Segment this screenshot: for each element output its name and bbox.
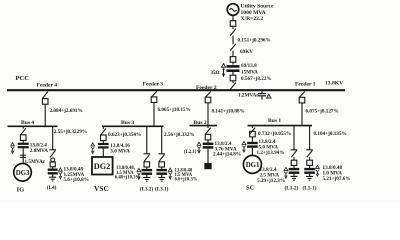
load L2.1 branch: switch blade — [205, 128, 210, 135]
load L4 branch wire — [52, 126, 54, 149]
svg-text:1.2+j13.94%: 1.2+j13.94% — [257, 150, 285, 156]
grounded wye symbol T-DG3 — [11, 147, 14, 154]
wire — [52, 156, 54, 159]
svg-text:2.55+j0.3229%: 2.55+j0.3229% — [54, 129, 87, 135]
grounded wye symbol T-L2.1 — [197, 146, 200, 153]
breaker L1.2 — [291, 160, 297, 165]
DG1 breaker — [250, 131, 256, 137]
switch blade L3.1 — [159, 154, 164, 161]
svg-text:6.075+j8.127%: 6.075+j8.127% — [306, 109, 339, 115]
svg-text:6.6+j10.3%: 6.6+j10.3% — [175, 178, 198, 183]
load L3.2 branch wire — [146, 126, 148, 153]
feeder 1 breaker — [299, 97, 305, 103]
ground L4 — [49, 177, 56, 181]
svg-text:VSC: VSC — [94, 184, 109, 193]
load L1.1 branch wire — [309, 126, 311, 150]
svg-text:Bus 2: Bus 2 — [194, 120, 207, 126]
main bus PCC 13.8kV — [7, 89, 345, 91]
wire — [309, 157, 311, 160]
switch blade (slash) — [230, 29, 236, 36]
wire — [232, 26, 234, 29]
DG1 branch wire — [251, 126, 253, 128]
load L3.1 branch wire — [161, 126, 163, 153]
svg-text:5.29+j12.3%: 5.29+j12.3% — [257, 178, 285, 184]
label 69/13.8 15MVA 0.567+j8.22% — [241, 63, 272, 82]
delta winding symbol T-DG3 — [11, 143, 15, 146]
wire — [102, 149, 104, 157]
grounded wye symbol T-L1.2 — [284, 172, 287, 179]
fuse L4 — [50, 158, 55, 167]
disconnect tick L1.2 — [291, 149, 298, 151]
svg-text:Feeder 1: Feeder 1 — [295, 81, 316, 87]
disconnect tick L3.2 — [144, 153, 151, 155]
wire — [232, 62, 234, 64]
feeder 3 wire to Bus 3 — [153, 103, 155, 127]
svg-text:13.8KV: 13.8KV — [325, 80, 343, 86]
feeder 4 wire to Bus 4 — [44, 104, 46, 126]
wire — [207, 140, 209, 143]
feeder 3: switch blade — [151, 91, 156, 97]
svg-text:8.141+j10.88%: 8.141+j10.88% — [212, 109, 245, 115]
generator DG1 — [243, 155, 261, 173]
svg-text:Bus 1: Bus 1 — [268, 118, 281, 124]
wire — [309, 174, 311, 176]
DG2 breaker — [101, 135, 107, 141]
svg-text:Utility Source: Utility Source — [241, 4, 275, 10]
breaker CB-T1L — [230, 75, 236, 81]
label 13.8/2.4 3.76 MVA 2.44+j14.8% — [213, 141, 241, 157]
wire — [146, 175, 148, 177]
wire — [22, 126, 24, 128]
svg-text:2.44+j14.8%: 2.44+j14.8% — [213, 152, 241, 158]
svg-text:(L1-1): (L1-1) — [303, 184, 317, 191]
switch blade L3.2 — [144, 154, 149, 161]
feeder 1: switch blade — [299, 92, 304, 98]
label 13.8/4.16 3.0 MVA — [110, 143, 130, 155]
svg-text:2.084+j2.691%: 2.084+j2.691% — [50, 108, 83, 114]
svg-text:(L2.1): (L2.1) — [184, 150, 197, 155]
wire: source to breaker — [232, 15, 234, 20]
wire — [207, 126, 209, 128]
breaker L2.1 — [205, 134, 211, 140]
wire — [293, 165, 295, 168]
disconnect tick L3.1 — [158, 153, 165, 155]
feeder 2: switch blade — [205, 92, 210, 98]
grounded wye symbol T-L4 — [59, 172, 62, 179]
transformer T-L3.2 — [142, 170, 153, 174]
label 13.8/0.48 1.25MVA 5.6+j10.8% — [64, 167, 89, 183]
grounded wye symbol T-L3.2 — [137, 173, 140, 180]
switch blade DG2 — [101, 128, 106, 135]
delta winding symbol T1 — [221, 64, 225, 68]
Bus 3 — [102, 125, 164, 127]
delta winding symbol T-L1.1 — [316, 165, 320, 168]
Bus 1 — [248, 125, 313, 127]
wire — [207, 149, 209, 164]
delta winding symbol T-L3.2 — [137, 168, 141, 171]
svg-text:2.0MVA: 2.0MVA — [30, 148, 48, 154]
wire — [251, 148, 253, 156]
feeder 2 wire to Bus 2 — [207, 103, 209, 126]
wire — [232, 72, 234, 75]
wire — [52, 167, 54, 169]
DG3 breaker — [20, 135, 26, 141]
shunt capacitor 1.2MVAr on PCC bus — [258, 90, 266, 99]
svg-text:1.2MVAr: 1.2MVAr — [238, 92, 259, 98]
breaker CB-U — [230, 21, 236, 27]
wire — [309, 165, 311, 168]
switch blade L4 — [50, 150, 55, 157]
svg-text:0.151+j0.296%: 0.151+j0.296% — [238, 37, 271, 43]
svg-text:5.6+j10.8%: 5.6+j10.8% — [64, 177, 89, 183]
transformer T-DG1 13.8/2.4 5.0MVA — [247, 143, 258, 147]
svg-text:15MVA: 15MVA — [241, 69, 258, 75]
DG3 branch: switch blade — [21, 128, 26, 135]
ground L3.2 — [143, 177, 150, 181]
delta symbol of capacitor bank — [267, 94, 271, 98]
svg-text:(L3.1): (L3.1) — [155, 186, 169, 193]
generator DG3 — [14, 164, 32, 182]
label 13.8/0.48, 1.5 MVA 6.48+j10.3% — [115, 166, 141, 180]
label: Utility Source 1000 MVA X/R=22.2 — [241, 4, 275, 22]
breaker L1.1 — [307, 160, 313, 165]
grounded wye symbol T-L3.1 — [169, 172, 172, 179]
feeder 2 breaker — [205, 97, 211, 103]
DG2 branch wire — [102, 126, 104, 129]
label 13.8/0.48 1.0 MVA 5.21+j07.6% — [323, 165, 351, 182]
switch blade (slash) — [230, 44, 236, 51]
switch blade DG1 — [250, 128, 255, 135]
load block L2.1 — [205, 164, 211, 169]
svg-text:69KV: 69KV — [240, 49, 253, 55]
label 13.8/2.4 2.5 MVA 5.29+j12.3% — [257, 167, 285, 184]
svg-text:Feeder 2: Feeder 2 — [196, 85, 217, 91]
label 13.8/0.48 1.5 MVA 6.6+j10.3% — [175, 168, 198, 182]
svg-text:0.104+j0.135%: 0.104+j0.135% — [314, 131, 347, 137]
ground L3.1 — [158, 177, 165, 181]
shunt capacitor 1.5MVAr at DG3 — [20, 155, 26, 157]
Bus 4 — [8, 125, 58, 127]
transformer T-DG2 13.8/4.16 3.0MVA — [98, 144, 109, 147]
svg-text:Bus 4: Bus 4 — [21, 120, 34, 126]
wire — [293, 157, 295, 160]
disconnect tick L4 — [49, 149, 56, 151]
svg-text:DG2: DG2 — [94, 162, 110, 171]
svg-text:2.56+j0.332%: 2.56+j0.332% — [164, 132, 195, 138]
wire — [22, 148, 24, 163]
svg-text:1.5MVAr: 1.5MVAr — [25, 159, 46, 165]
svg-text:35Ω: 35Ω — [211, 71, 220, 76]
svg-text:(L3.2): (L3.2) — [140, 186, 154, 193]
switch blade L1.1 — [307, 150, 312, 157]
svg-text:(L1-2): (L1-2) — [285, 184, 299, 191]
transformer T-L1.2 — [289, 169, 300, 173]
grounding resistor 35 ohm — [211, 68, 226, 77]
svg-text:0.567+j8.22%: 0.567+j8.22% — [241, 76, 272, 82]
breaker CB-T1H — [230, 57, 236, 63]
svg-text:Feeder 4: Feeder 4 — [37, 82, 58, 88]
delta winding symbol T-L3.1 — [168, 168, 172, 171]
wire — [52, 175, 54, 178]
grounded wye symbol T-DG1 — [242, 146, 245, 153]
wire — [102, 141, 104, 143]
transformer T1 69/13.8 15MVA — [227, 66, 240, 70]
wire — [146, 167, 148, 169]
wire — [161, 167, 163, 169]
svg-text:Feeder 3: Feeder 3 — [143, 81, 164, 87]
svg-text:IG: IG — [17, 187, 25, 194]
delta winding symbol T-L1.2 — [284, 167, 288, 170]
svg-text:0.623+j0.354%: 0.623+j0.354% — [108, 132, 141, 138]
delta winding symbol T-DG1 — [242, 141, 246, 144]
grounded wye symbol T-L1.1 — [316, 170, 319, 177]
svg-text:(L4): (L4) — [47, 184, 57, 191]
feeder 4: switch blade — [43, 92, 48, 99]
svg-text:0.732+j0.055%: 0.732+j0.055% — [258, 131, 291, 137]
delta winding symbol T-L4 — [59, 168, 63, 171]
switch blade L1.2 — [291, 150, 296, 157]
wire — [293, 174, 295, 176]
svg-text:6.065+j10.15%: 6.065+j10.15% — [158, 107, 191, 113]
feeder 3 breaker — [151, 97, 157, 103]
wire 69kV line — [232, 36, 234, 45]
converter DG2 (VSC) — [92, 157, 113, 175]
switch blade (slash) — [230, 83, 236, 90]
ground L1.2 — [291, 176, 298, 180]
wire — [232, 81, 234, 83]
ground L1.1 — [306, 176, 313, 180]
delta winding symbol T-L2.1 — [197, 142, 201, 145]
wire — [251, 137, 253, 142]
svg-text:X/R=22.2: X/R=22.2 — [241, 16, 264, 22]
transformer T-L1.1 — [304, 169, 315, 173]
transformer T-L3.1 — [156, 170, 167, 174]
grounded wye symbol T-DG2 — [91, 147, 94, 154]
label 13.8/2.4 2.0MVA — [30, 142, 48, 154]
feeder 1 wire to Bus 1 — [301, 103, 303, 126]
utility source G1 — [227, 4, 239, 16]
svg-text:1000 MVA: 1000 MVA — [241, 10, 266, 16]
svg-text:5.21+j07.6%: 5.21+j07.6% — [323, 176, 351, 182]
svg-text:PCC: PCC — [16, 75, 30, 82]
transformer T-L2.1 13.8/2.4 3.76MVA — [203, 144, 214, 148]
svg-text:6.48+j10.3%: 6.48+j10.3% — [115, 175, 141, 180]
wire — [22, 140, 24, 142]
svg-text:Bus 3: Bus 3 — [121, 120, 134, 126]
disconnect tick L1.1 — [306, 149, 313, 151]
Bus 2 — [190, 125, 218, 127]
svg-text:69/13.8: 69/13.8 — [241, 63, 257, 69]
svg-text:DG1: DG1 — [246, 162, 260, 169]
wire — [232, 51, 234, 57]
svg-text:SC: SC — [246, 184, 255, 191]
breaker L3.1 — [159, 162, 165, 167]
label 13.8/2.4 5.0 MVA 1.2+j13.94% — [257, 139, 285, 156]
svg-text:3.0 MVA: 3.0 MVA — [110, 149, 130, 155]
svg-text:DG3: DG3 — [16, 170, 30, 177]
delta winding symbol T-DG2 — [91, 143, 95, 146]
wire — [161, 175, 163, 177]
transformer T-L4 13.8/0.48 1.25MVA — [48, 170, 58, 174]
load L1.2 branch wire — [293, 126, 295, 150]
breaker L3.2 — [144, 162, 150, 167]
transformer T-DG3 13.8/2.4 2.0MVA — [18, 144, 29, 147]
feeder 4 breaker — [42, 99, 48, 105]
